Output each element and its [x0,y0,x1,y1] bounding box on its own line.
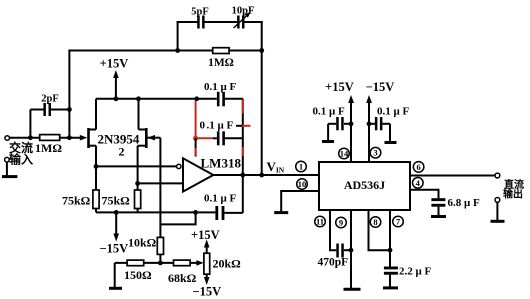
IC U3 AD536J [319,162,410,210]
capacitor C 2.2uF [384,266,432,288]
ground (-15V cap) [385,141,397,144]
wire feedback left vertical to gate node [68,51,70,138]
gate arrow right JFET [148,135,156,141]
node junction VIN [259,173,264,178]
svg-text:0: 0 [200,120,206,132]
wire red segment right vertical middle [242,147,244,156]
wire middle cap right lead [225,137,243,139]
wire LM318 output to AD536J pin1 [213,174,319,176]
svg-text:+15V: +15V [100,57,129,71]
ground (pin10) [274,211,288,214]
resistor R 75k ohm (right) [102,190,141,209]
svg-text:68kΩ: 68kΩ [168,271,197,285]
capacitor C 6.8uF [431,197,480,216]
wire 150/68k row [115,262,198,264]
wire red segment right vertical top [242,100,244,114]
svg-text:1MΩ: 1MΩ [208,57,234,69]
svg-text:2.2 μ F: 2.2 μ F [399,266,431,278]
svg-text:6.8 μ F: 6.8 μ F [448,197,480,209]
wire leader dash red [242,125,251,127]
wire 150 left to ground [114,263,116,288]
capacitor C 0.1uF (middle, red highlighted) [200,120,234,146]
svg-text:输入: 输入 [9,152,33,167]
wire red middle cap left lead [196,137,213,139]
op-amp U2 LM318 [183,158,213,191]
input terminal lower [5,157,10,162]
capacitor C 0.1uF (AD536J +15V) [313,106,352,141]
node junction top-right of feedback branch [259,48,264,53]
wire AC input line [10,137,81,139]
capacitor C 0.1uF (AD536J -15V) [369,106,409,142]
pin 1 circle [296,161,307,172]
inverting input bubble [177,164,181,168]
svg-text:10pF: 10pF [232,6,255,17]
ground (pin9) [344,288,361,291]
wire inverting input [96,165,177,167]
wire source/tail rail [96,211,215,213]
svg-text:+15V: +15V [325,80,354,94]
node junction -15V decoupling [367,121,372,126]
svg-text:10kΩ: 10kΩ [128,236,157,250]
wire 2pF branch vertical [29,110,31,138]
wire pin8 down [369,210,391,250]
svg-text:0.1 μ F: 0.1 μ F [377,106,409,118]
wire feedback branch left vertical [177,22,179,51]
wire lower terminal to ground [6,162,8,176]
capacitor C 0.1uF (bottom) [204,193,236,221]
wire left 75k bottom [95,209,97,213]
svg-text:−15V: −15V [366,80,395,94]
wire middle cap left lead black part [213,137,217,139]
pin 6 circle [413,162,424,173]
wire top cap right to vertical [225,98,243,100]
svg-text:AD536J: AD536J [344,178,385,192]
ground (+15V cap) [322,140,334,143]
svg-text:150Ω: 150Ω [124,268,152,282]
pin 11 circle [315,216,326,227]
wire top feedback rail [69,50,261,52]
svg-text:+15V: +15V [191,228,220,242]
node junction red middle cap left [193,136,198,141]
resistor R 10k ohm [128,236,164,255]
svg-text:.1 μ F: .1 μ F [207,120,234,132]
node junction -15V tap [114,210,119,215]
power -15V (AD536J pin3) [366,80,395,162]
svg-text:9: 9 [339,218,343,228]
power -15V (pot bottom) [193,274,222,298]
wire V+ lead of LM318 [195,138,197,156]
node junction gate node [67,135,72,140]
capacitor C 0.1uF (top) [204,81,236,106]
pin 4 circle [413,178,424,189]
svg-text:5pF: 5pF [191,7,209,18]
svg-text:6: 6 [416,162,420,172]
potentiometer R 20k ohm [204,253,241,274]
svg-text:0.1 μ F: 0.1 μ F [204,81,236,93]
svg-text:11: 11 [316,217,324,227]
capacitor C 2pF [41,94,59,117]
svg-text:输出: 输出 [503,188,523,201]
svg-text:0.1 μ F: 0.1 μ F [204,193,236,205]
pin 7 circle [393,216,404,227]
wire leader dash black [236,125,242,127]
ground (6.8uF) [431,215,446,218]
svg-text:−15V: −15V [100,242,129,256]
wiper arrow into 20k pot [196,260,203,266]
node junction pin7/pin8 [388,248,393,253]
resistor R 1M ohm (input) [35,135,62,155]
node junction +15V decoupling [349,121,354,126]
power +15V (AD536J pin14) [325,80,354,162]
wire bottom cap right lead [224,212,242,214]
pin 9 circle [336,217,347,228]
wire pin4 to 6.8uF [410,190,439,199]
wire right gate vertical [159,138,161,238]
transistor Q2 2N3954 right JFET [138,99,147,190]
node junction decoupling tap on rail [194,96,199,101]
gate arrow left JFET [80,135,88,141]
node junction bottom cap left [193,210,198,215]
node junction 10k/150/68k [158,261,163,266]
output terminal upper [495,173,500,178]
capacitor C 10pF trimmer [232,6,255,29]
wire branch from tail to gate line [160,212,195,224]
wire drain rail y99 [96,98,217,100]
wire non-inverting input [138,182,183,184]
wire right vertical x242.8 [242,99,244,213]
wire feedback right vertical to VIN node [261,51,263,176]
svg-text:75kΩ: 75kΩ [102,194,131,208]
pin 10 circle [297,179,308,190]
svg-text:2: 2 [119,145,125,159]
wire pin9 to ground [350,210,352,288]
node junction output / cap vertical [240,173,245,178]
power +15V (pot top) [191,228,220,253]
node junction 470pF/pin9 [349,248,354,253]
svg-text:8: 8 [373,217,377,227]
wire top feedback branch [178,21,262,23]
pin 14 circle [339,148,350,159]
resistor R 1M ohm (top feedback) [208,48,234,69]
svg-text:14: 14 [340,149,349,159]
wire right 75k bottom [137,209,139,213]
svg-text:1: 1 [299,162,303,172]
node junction right drain on rail [136,96,141,101]
resistor R 150 ohm [124,260,152,282]
svg-text:20kΩ: 20kΩ [213,257,242,271]
power +15V (2N3954 drains) [100,57,129,99]
wire feedback branch right vertical [261,22,263,51]
node junction left source [94,164,99,169]
wire red segment V+ lead [195,148,197,156]
capacitor C 5pF [191,7,209,29]
ground (150 ohm) [109,287,122,290]
pin 3 circle [370,147,381,158]
node junction input / 2pF tap [28,135,33,140]
wire pin7 down [389,210,391,267]
svg-text:2pF: 2pF [41,94,59,105]
node junction top-left of feedback branch [175,48,180,53]
power -15V (sources) [100,212,129,255]
output terminal lower [495,198,500,203]
svg-text:0.1 μ F: 0.1 μ F [313,106,345,118]
ground (input) [2,175,18,178]
resistor R 75k ohm (left) [62,190,99,209]
svg-text:75kΩ: 75kΩ [62,194,91,208]
svg-text:LM318: LM318 [201,156,242,171]
input terminal upper [5,136,10,141]
wire pin11 down [330,210,336,250]
wire lower output terminal to ground [496,202,498,220]
wire 10k bottom [159,254,161,263]
svg-text:10: 10 [298,179,307,189]
node junction +15V on rail [114,96,119,101]
wire pin6 output [410,175,495,177]
ground (2.2uF) [383,286,398,289]
resistor R 68k ohm [168,260,197,285]
ground (output) [491,220,505,223]
wire right gate lead [148,137,161,139]
svg-text:4: 4 [416,178,421,188]
capacitor C 470pF [318,244,352,269]
node junction right source [135,181,140,186]
transistor Q1 2N3954 left JFET [89,99,97,190]
svg-text:1MΩ: 1MΩ [35,141,62,155]
svg-text:470pF: 470pF [318,257,349,269]
pin 8 circle [370,217,381,228]
wire pin10 to ground [281,191,319,212]
wire 2pF branch horizontal [30,109,69,111]
wire red highlighted left vertical [195,101,197,139]
svg-text:3: 3 [373,148,377,158]
node junction 2pF / feedback [67,107,72,112]
svg-text:−15V: −15V [193,285,222,299]
